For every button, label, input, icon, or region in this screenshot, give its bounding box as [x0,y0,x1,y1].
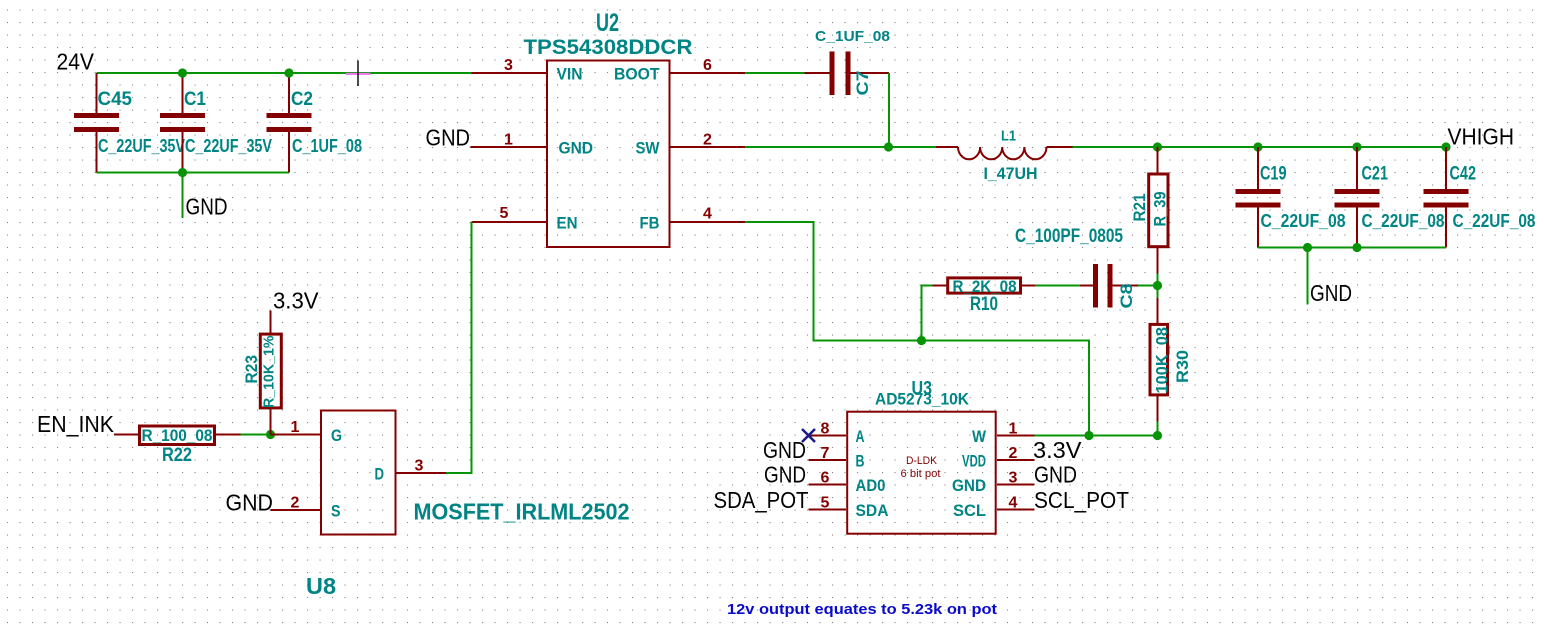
capacitor C19 [1236,147,1346,248]
svg-text:AD0: AD0 [856,476,886,495]
svg-text:EN_INK: EN_INK [37,411,115,437]
junction rail at C42 [1441,142,1450,151]
svg-text:GND: GND [1034,462,1077,488]
svg-text:I_47UH: I_47UH [984,164,1038,183]
junction FB tap [917,336,926,345]
svg-text:R23: R23 [242,355,261,384]
svg-text:VIN: VIN [557,65,583,84]
svg-text:2: 2 [291,495,300,512]
svg-text:BOOT: BOOT [614,65,660,84]
wire C8 to junction [1138,285,1158,287]
resistor R21 R_39 [1130,147,1170,274]
svg-text:4: 4 [1009,495,1018,512]
pin 8 A of U3 [809,421,865,447]
svg-text:SW: SW [636,139,661,158]
svg-text:R_39: R_39 [1151,192,1170,227]
capacitor C2 [267,73,363,173]
svg-text:G: G [331,426,342,445]
svg-text:3.3V: 3.3V [1033,437,1082,463]
capacitor C21 [1335,147,1445,248]
svg-text:L1: L1 [1001,128,1016,145]
wire L1 to VHIGH [1073,146,1447,148]
pin 7 B of U3 [809,445,865,471]
svg-text:GND: GND [952,476,986,495]
svg-text:U2: U2 [596,9,619,37]
resistor R22 R_100_08 [114,426,241,466]
pin 2 SW of U2 [636,132,746,158]
svg-text:R10: R10 [970,294,998,315]
svg-text:3.3V: 3.3V [273,288,319,314]
pin 3 VIN of U2 [472,57,583,84]
svg-text:U8: U8 [306,573,336,599]
pin 6 BOOT of U2 [614,57,745,84]
pin 5 SDA of U3 [809,495,889,521]
junction on 24V rail at C2 [284,68,293,77]
svg-text:TPS54308DDCR: TPS54308DDCR [524,36,693,59]
cursor crosshair [346,61,371,87]
svg-text:GND: GND [1310,280,1352,306]
svg-text:1: 1 [1009,421,1018,438]
svg-text:R21: R21 [1130,194,1149,222]
junction rail at C19 [1253,142,1262,151]
svg-text:6: 6 [821,470,830,487]
svg-text:C_100PF_0805: C_100PF_0805 [1015,226,1123,247]
inductor L1 I_47UH [936,128,1073,184]
pin 6 AD0 of U3 [809,470,886,496]
wire C7 down to SW net [888,73,890,147]
svg-text:4: 4 [703,206,712,223]
svg-text:C8: C8 [1117,284,1136,309]
wire bottom bus right [1258,247,1446,249]
svg-text:R22: R22 [162,445,192,466]
svg-text:EN: EN [557,214,578,233]
svg-text:SCL_POT: SCL_POT [1034,487,1129,513]
capacitor C42 [1424,147,1536,248]
svg-text:2: 2 [703,132,712,149]
junction SW/C7 [884,142,893,151]
wire W net [1035,435,1158,437]
svg-text:B: B [856,452,865,471]
svg-text:6 bit pot: 6 bit pot [901,468,941,480]
svg-text:W: W [972,427,987,446]
resistor R_2K_08 R10 [933,277,1036,315]
junction on bottom bus at C1 [178,168,187,177]
capacitor C45 [74,73,185,173]
wire R22 to G junction [241,434,271,436]
svg-text:C_1UF_08: C_1UF_08 [815,28,890,45]
svg-text:24V: 24V [57,49,95,75]
svg-text:C1: C1 [184,89,206,110]
svg-text:D-LDK: D-LDK [906,455,938,467]
wire R21 to C8 node [1157,274,1159,286]
capacitor C8 [1080,264,1138,309]
svg-text:1: 1 [291,419,300,436]
wire R10 to C8 [1035,285,1080,287]
svg-text:R_100_08: R_100_08 [142,426,213,445]
svg-text:C_22UF_08: C_22UF_08 [1453,211,1536,231]
op-amp U2 TPS54308DDCR [524,9,693,247]
pin 5 EN of U2 [472,205,578,233]
capacitor C7 C_1UF_08 [805,28,891,96]
svg-text:C2: C2 [291,89,313,110]
svg-text:FB: FB [640,214,660,233]
svg-text:D: D [375,465,385,484]
resistor R23 R_10K_1% [242,311,281,435]
op-amp U3 AD5273_10K [847,379,996,534]
svg-text:5: 5 [821,495,830,512]
svg-text:R_10K_1%: R_10K_1% [261,336,278,409]
svg-text:SDA: SDA [856,501,889,520]
capacitor C1 [160,73,272,173]
svg-text:3: 3 [415,458,424,475]
svg-text:C_1UF_08: C_1UF_08 [292,136,362,156]
wire bottom bus left [97,172,290,174]
svg-text:GND: GND [763,437,806,463]
wire FB net [745,222,1089,436]
wire R30 to W net [1157,422,1159,436]
svg-text:C19: C19 [1260,164,1287,185]
svg-text:C42: C42 [1450,164,1477,185]
junction W/FB [1084,431,1093,440]
svg-text:8: 8 [821,421,830,438]
svg-text:6: 6 [703,57,712,74]
svg-text:C_22UF_35V: C_22UF_35V [98,136,185,156]
wire FB tap up to R10 [922,286,933,341]
svg-text:GND: GND [764,462,806,488]
svg-text:3: 3 [504,57,513,74]
svg-text:SDA_POT: SDA_POT [714,487,809,513]
svg-text:C7: C7 [853,71,872,96]
svg-text:C_22UF_08: C_22UF_08 [1261,211,1346,231]
svg-text:R30: R30 [1173,350,1192,383]
wire GND stub right [1307,248,1309,305]
svg-text:MOSFET_IRLML2502: MOSFET_IRLML2502 [414,499,630,525]
pin 3 GND of U3 [952,470,1035,496]
junction bottom bus GND tap [1303,243,1312,252]
junction rail at R21 [1153,142,1162,151]
junction bottom bus at C21 [1352,243,1361,252]
svg-text:C45: C45 [98,89,133,110]
svg-text:A: A [856,427,865,446]
svg-text:S: S [331,502,341,521]
svg-text:2: 2 [1009,445,1018,462]
svg-text:C_22UF_08: C_22UF_08 [1362,211,1445,231]
svg-text:C_22UF_35V: C_22UF_35V [185,136,272,156]
junction C8/R21/R30 node [1153,281,1162,290]
junction G node [266,430,275,439]
svg-text:C21: C21 [1362,164,1389,185]
svg-text:12v output equates to 5.23k on: 12v output equates to 5.23k on pot [727,601,997,618]
pin 1 G of U8 [271,419,343,445]
svg-text:GND: GND [426,125,471,151]
svg-text:GND: GND [559,139,594,158]
pin 2 S of U8 [271,495,341,521]
pin 4 FB of U2 [640,206,746,233]
svg-text:VDD: VDD [962,452,986,471]
no-connect X on pin 8 [802,429,815,442]
svg-text:5: 5 [500,205,509,222]
svg-text:VHIGH: VHIGH [1448,124,1515,150]
svg-text:GND: GND [186,194,228,220]
junction on 24V rail at C1 [178,68,187,77]
resistor R30 100K_08 [1150,286,1192,422]
pin 3 D of U8 [375,458,447,484]
svg-text:100K_08: 100K_08 [1153,327,1172,394]
wire 24V rail [97,72,472,74]
wire GND stub left [182,173,184,219]
wire BOOT to C7 [745,72,804,74]
svg-text:GND: GND [226,490,274,516]
svg-text:7: 7 [821,445,830,462]
transistor Q1 MOSFET_IRLML2502 U8 [306,411,630,600]
svg-text:1: 1 [504,132,513,149]
svg-text:SCL: SCL [953,501,986,520]
pin 1 GND of U2 [471,132,594,158]
junction W/R30 [1153,431,1162,440]
svg-text:3: 3 [1009,470,1018,487]
pin 2 VDD of U3 [962,445,1035,471]
wire SW net [745,146,936,148]
wire D to EN [446,222,472,473]
pin 1 W of U3 [972,421,1035,447]
svg-text:AD5273_10K: AD5273_10K [875,390,970,409]
junction rail at C21 [1352,142,1361,151]
pin 4 SCL of U3 [953,495,1035,521]
